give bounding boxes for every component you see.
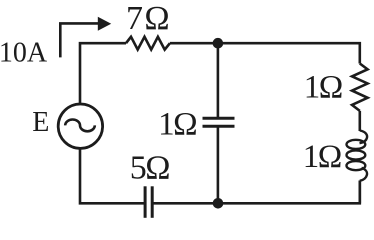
- svg-text:1Ω: 1Ω: [158, 106, 196, 142]
- source E: [58, 104, 102, 148]
- svg-text:5Ω: 5Ω: [130, 149, 170, 186]
- svg-text:E: E: [32, 107, 49, 138]
- wire top-left corner: [80, 43, 126, 104]
- svg-text:1Ω: 1Ω: [303, 139, 341, 175]
- current arrow: [60, 23, 98, 57]
- inductor L 1ohm: [347, 131, 368, 181]
- wire right middle: [358, 111, 361, 131]
- node top junction: [213, 38, 224, 49]
- wire right lower: [358, 181, 361, 204]
- resistor R 7ohm: [126, 37, 170, 50]
- wire top middle to right: [170, 43, 360, 63]
- wire left lower: [80, 148, 145, 203]
- wire bottom to right corner: [152, 181, 360, 204]
- node bottom junction: [213, 198, 224, 209]
- svg-text:1Ω: 1Ω: [304, 69, 342, 105]
- wire middle branch lower: [217, 127, 220, 203]
- wire middle branch upper: [217, 43, 220, 117]
- capacitor C 5ohm bottom: [144, 186, 147, 218]
- svg-text:10A: 10A: [0, 37, 48, 68]
- resistor R 1ohm right: [352, 64, 368, 111]
- svg-text:7Ω: 7Ω: [126, 0, 171, 37]
- capacitor C 1ohm middle: [203, 117, 235, 120]
